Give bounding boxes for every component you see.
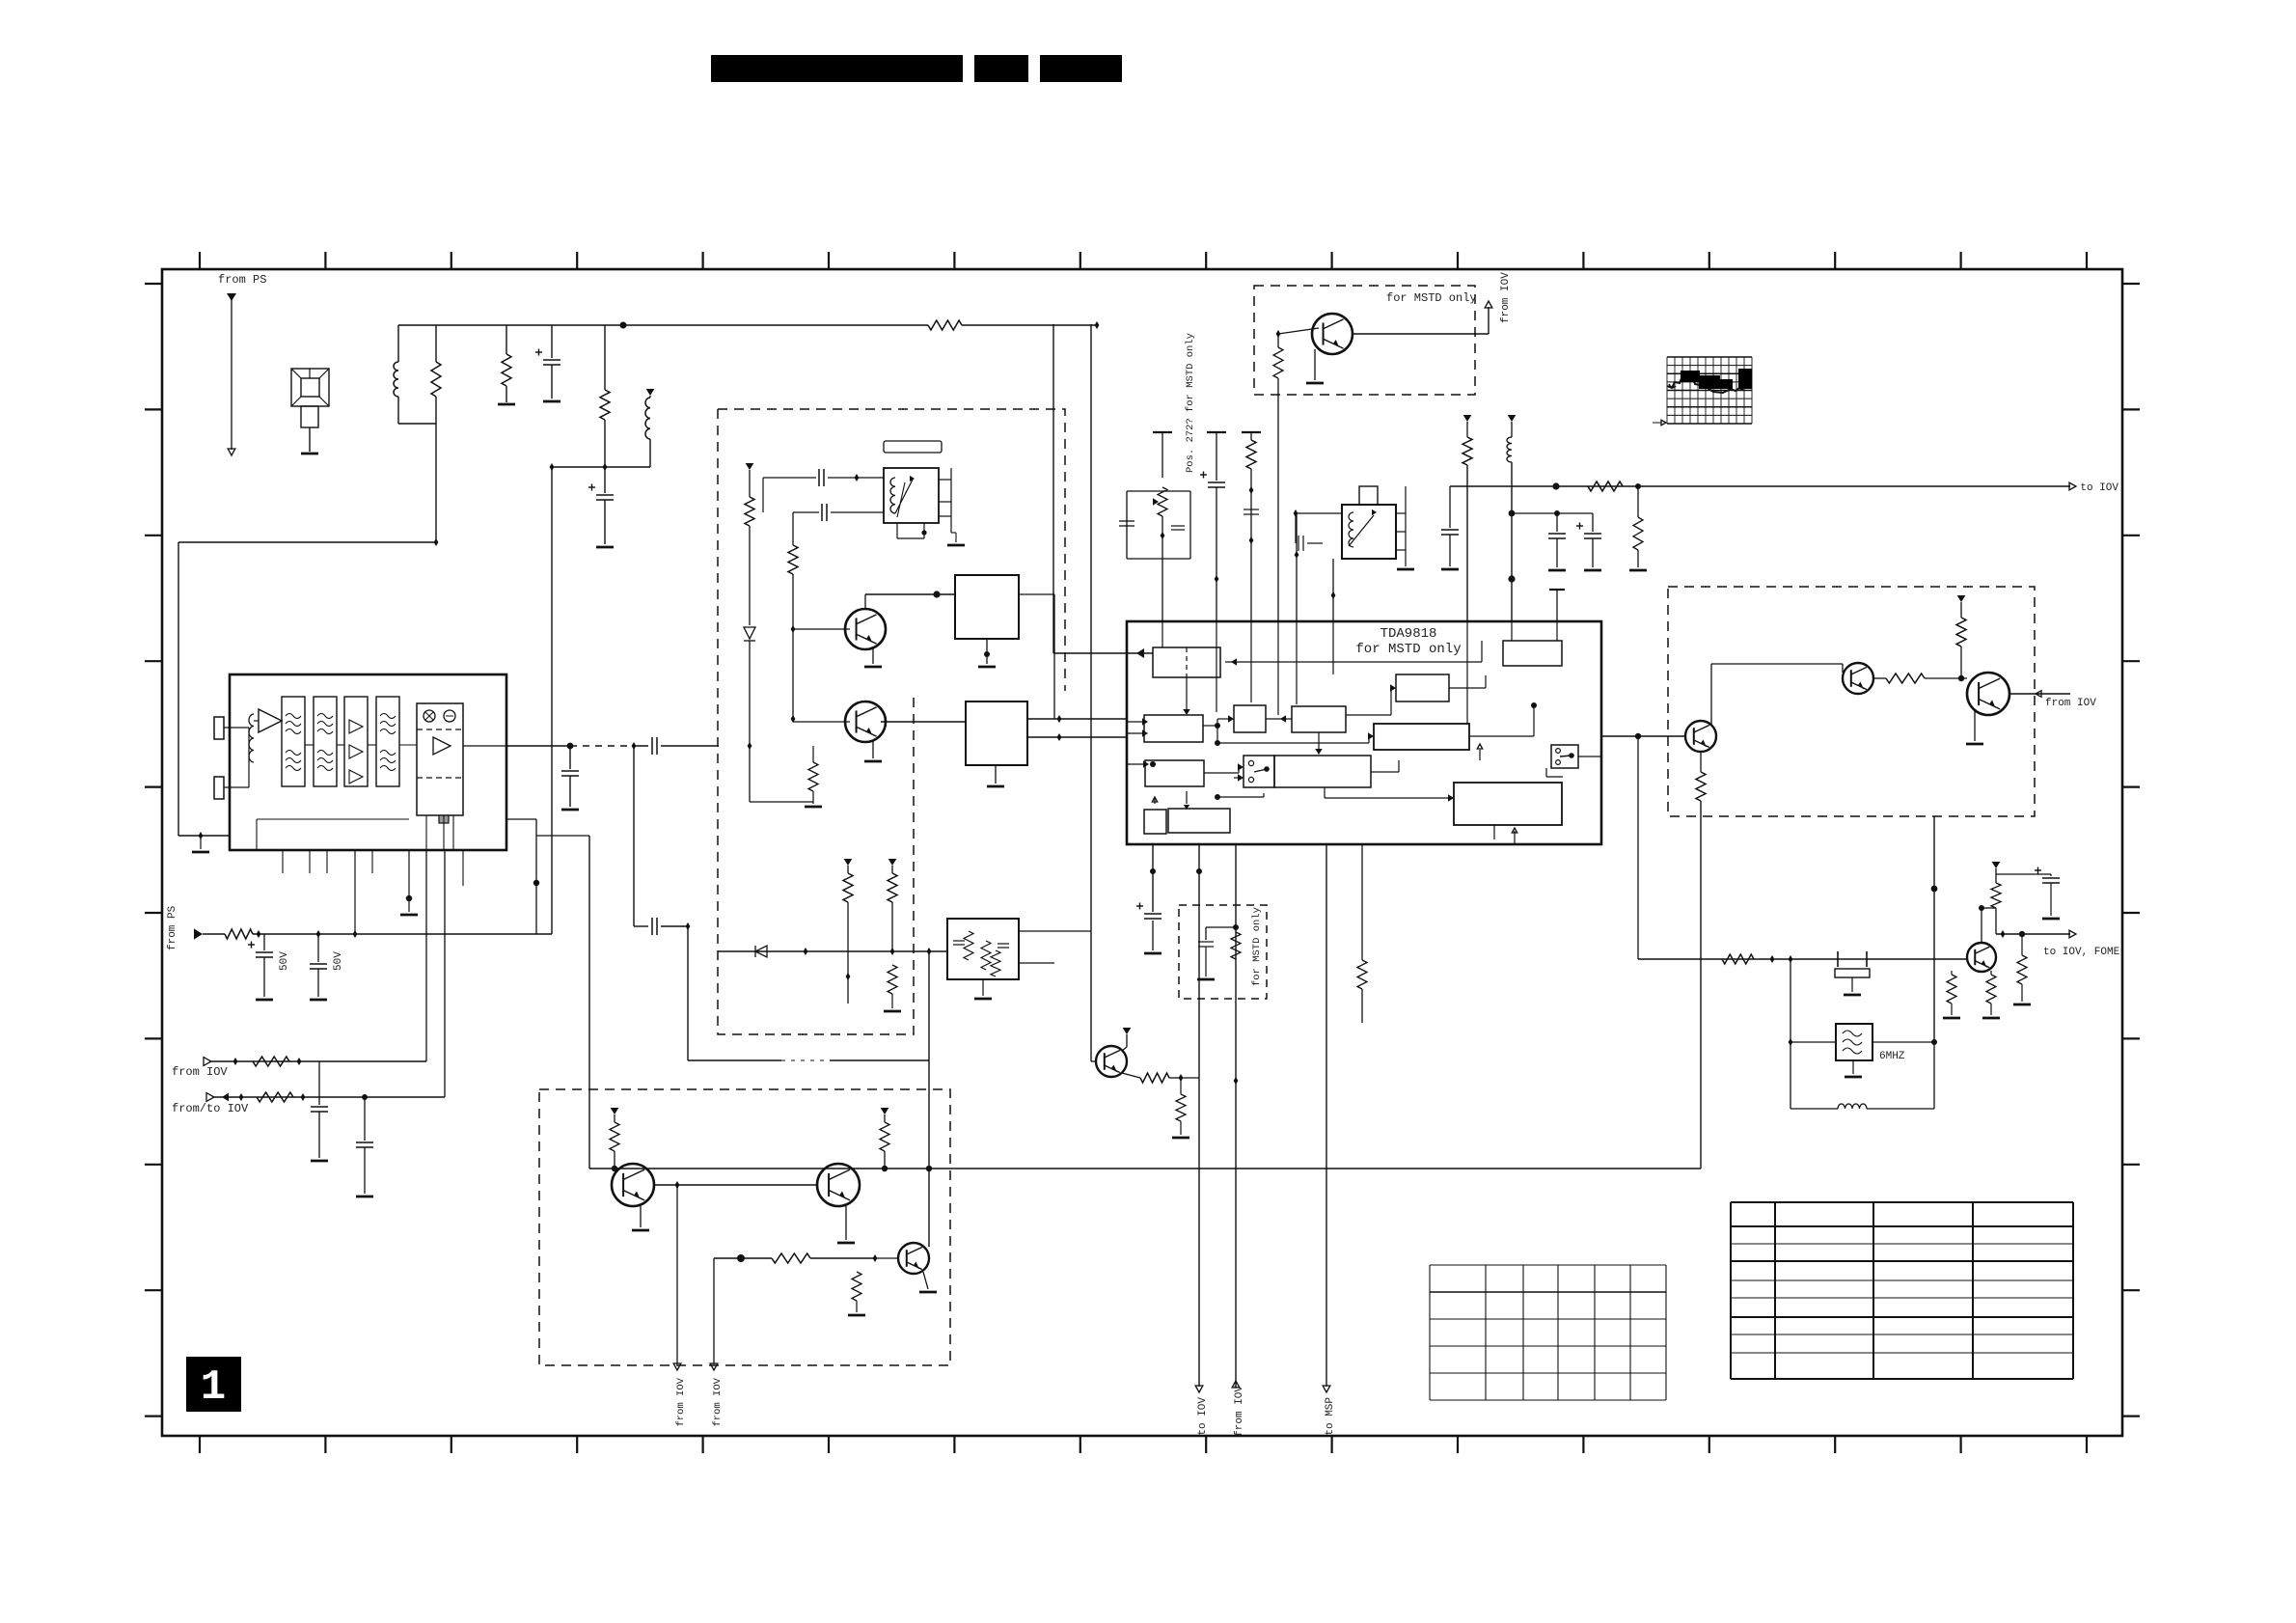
svg-text:from IOV: from IOV: [1234, 1386, 1245, 1437]
svg-text:50V: 50V: [279, 951, 290, 971]
svg-text:1: 1: [201, 1363, 226, 1412]
svg-text:from IOV: from IOV: [172, 1065, 228, 1079]
svg-text:to IOV: to IOV: [2080, 482, 2118, 494]
svg-text:from IOV: from IOV: [2045, 698, 2096, 709]
svg-text:Pos. 272? for MSTD only: Pos. 272? for MSTD only: [1185, 333, 1196, 473]
svg-text:for MSTD only: for MSTD only: [1251, 907, 1263, 986]
svg-text:TDA9818: TDA9818: [1380, 626, 1437, 642]
svg-text:from IOV: from IOV: [675, 1377, 687, 1426]
svg-text:to IOV, FOME: to IOV, FOME: [2043, 947, 2120, 958]
svg-text:from IOV: from IOV: [712, 1377, 724, 1426]
svg-text:to MSP: to MSP: [1325, 1397, 1336, 1436]
svg-text:50V: 50V: [333, 951, 344, 971]
svg-text:from PS: from PS: [167, 905, 178, 950]
svg-text:to IOV: to IOV: [1197, 1397, 1209, 1436]
svg-text:from IOV: from IOV: [1500, 272, 1512, 323]
svg-text:for MSTD only: for MSTD only: [1355, 642, 1461, 657]
svg-text:from PS: from PS: [218, 273, 266, 287]
svg-text:for MSTD only: for MSTD only: [1386, 291, 1477, 305]
svg-text:from/to IOV: from/to IOV: [172, 1102, 249, 1115]
svg-text:6MHZ: 6MHZ: [1879, 1051, 1905, 1062]
